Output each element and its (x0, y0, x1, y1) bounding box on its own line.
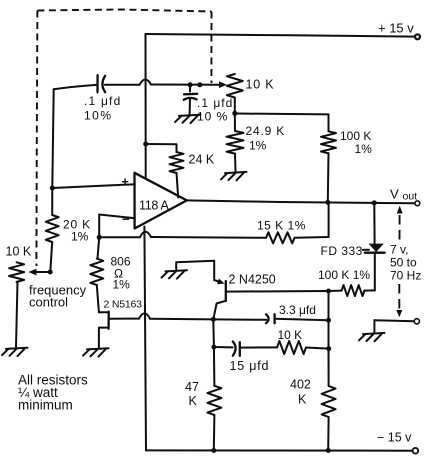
svg-text:K: K (189, 394, 198, 408)
svg-text:70 Hz: 70 Hz (390, 269, 421, 283)
node: wiper junction (48, 270, 53, 275)
ground (24.9K) (221, 172, 247, 180)
wire: collector node to 3.3ufd (213, 318, 266, 320)
wire: base node to 100K (329, 290, 342, 292)
node: 15ufd branch junction (211, 345, 216, 350)
resistor 100K 1% (divider) (321, 129, 372, 156)
svg-text:minimum: minimum (18, 398, 73, 413)
ganged-pot mechanical coupling dashed link (36, 10, 211, 267)
node: divider junction (232, 111, 237, 116)
svg-text:FD 333: FD 333 (321, 244, 363, 258)
svg-text:15 K 1%: 15 K 1% (257, 219, 306, 233)
resistor 47K (185, 380, 221, 415)
wire: V+ supply feed to op-amp (145, 34, 147, 178)
svg-text:3.3 μfd: 3.3 μfd (279, 303, 316, 317)
wire: 100K to diode corner (364, 289, 374, 291)
svg-text:118 A: 118 A (139, 199, 170, 213)
transistor Q1 2N4250 (176, 261, 328, 320)
wire: 24.9K to ground (234, 154, 237, 171)
capacitor C4 15 ufd (230, 342, 270, 374)
terminal: output ground return (374, 319, 419, 332)
node: collector / gate junction (211, 317, 216, 322)
svg-text:− 15 v: − 15 v (377, 431, 412, 445)
svg-text:2 N4250: 2 N4250 (229, 273, 276, 287)
wire: collector node down to 15ufd node (212, 319, 215, 347)
resistor 20K 1% (46, 215, 91, 244)
wire: trim pot bottom to divider node (234, 98, 236, 114)
wire: left node to C1 (54, 85, 98, 90)
capacitor C3 3.3 ufd (266, 303, 316, 323)
node: 10K wire / ladder junction (326, 346, 331, 351)
transistor Q2 2N5163 (97, 285, 142, 347)
resistor 24K (170, 152, 215, 173)
node: inverting input / 806 / 15K junction (97, 235, 102, 240)
node: 47K / rail (211, 448, 216, 453)
ground (C2) (175, 115, 201, 123)
node: wiper link tap (197, 82, 202, 87)
wire: 15K to Vout line (295, 203, 329, 238)
svg-text:1%: 1% (113, 278, 131, 292)
op-amp U1 118A (122, 173, 187, 229)
wire: 100K top from corner (328, 114, 330, 131)
wire: C1 to 10K trim pot wiper (hop over V+ feed) (105, 80, 221, 85)
ground (output terminal) (359, 333, 385, 341)
resistor 10K (series with 15ufd) (277, 328, 306, 354)
svg-text:47: 47 (185, 380, 199, 394)
wire: divider node to 24.9K (234, 113, 236, 131)
node: 402K / rail (326, 448, 331, 453)
svg-text:10 K: 10 K (6, 245, 32, 259)
wire: ladder vertical (base node down to rail) (328, 291, 330, 349)
svg-text:.1 μfd: .1 μfd (84, 94, 121, 108)
resistor 24.9K 1% (227, 124, 286, 154)
svg-text:24.9 K: 24.9 K (246, 124, 286, 138)
resistor 806 ohm 1% (90, 255, 131, 292)
resistor 402K (290, 349, 336, 451)
terminal: V out (390, 187, 420, 206)
svg-text:1%: 1% (249, 139, 267, 153)
node: 3.3ufd / ladder junction (326, 318, 331, 323)
svg-text:+ 15 v: + 15 v (378, 21, 414, 36)
node: base/ladder junction (326, 289, 331, 294)
node: FD333 tap on Vout (372, 200, 377, 205)
wire: inverting input (99, 215, 135, 219)
wire: 24K bottom to op-amp output apex (177, 173, 179, 198)
svg-text:10%: 10% (84, 109, 113, 123)
wire: 20K bottom to wiper node (50, 242, 52, 272)
node: shunt cap tap (188, 82, 193, 87)
ground (2N4250 emitter) (162, 270, 188, 278)
note: all resistors 1/4 watt minimum (18, 373, 88, 413)
node: + input / 20K junction (50, 186, 55, 191)
svg-text:2 N5163: 2 N5163 (104, 299, 143, 311)
wire: + node down to 20K (51, 188, 53, 215)
wire: 100K bottom to Vout line (327, 153, 330, 202)
wiper arrowhead into frequency pot (28, 269, 36, 276)
wire: 47K to rail (213, 415, 216, 451)
svg-text:100 K 1%: 100 K 1% (318, 268, 370, 282)
svg-text:.1 μfd: .1 μfd (197, 96, 233, 110)
-15 V supply rail (146, 431, 418, 454)
svg-text:10 %: 10 % (197, 110, 228, 124)
svg-text:−: − (122, 212, 130, 227)
svg-text:+: + (122, 175, 129, 189)
capacitor C1 .1 ufd 10% (series) (84, 75, 121, 122)
ground (2N5163 source) (83, 348, 109, 356)
wire: junction to 24K top (146, 144, 177, 152)
wire: left vertical (C1 to + input node) (52, 89, 53, 188)
diode FD333 (321, 203, 385, 291)
wire: 10K to ladder (306, 348, 329, 349)
svg-text:10 K: 10 K (278, 328, 303, 342)
wire: 15ufd to 10K (240, 346, 277, 348)
svg-text:V: V (390, 187, 399, 202)
svg-text:15 μfd: 15 μfd (230, 359, 270, 373)
potentiometer 10K frequency control (6, 245, 87, 310)
capacitor C2 .1 ufd 10% (shunt to ground) (184, 85, 233, 124)
wire: non-inverting input (52, 184, 135, 188)
wire: wiper of frequency-control pot (34, 271, 51, 273)
measurement annotation: 7v 50-70 Hz (390, 206, 421, 317)
svg-text:K: K (298, 393, 307, 407)
wire: node to 15ufd cap (214, 346, 233, 348)
svg-text:10 K: 10 K (246, 78, 275, 92)
+15 V supply rail (146, 21, 421, 40)
wire: V- supply feed (op-amp to -15 rail) (144, 227, 146, 451)
svg-text:out: out (403, 191, 418, 203)
svg-text:1%: 1% (355, 142, 373, 156)
wire: pot bottom to ground (16, 282, 18, 347)
svg-text:50 to: 50 to (390, 256, 417, 270)
node: 24K / V+ junction (143, 142, 148, 147)
wire: op-amp output to Vout terminal (187, 200, 415, 203)
svg-text:402: 402 (290, 378, 311, 392)
wire: 15ufd node down to 47K (213, 347, 216, 386)
wire: 2N5163 gate to collector node (hop over V- feed) (109, 313, 214, 319)
svg-text:24 K: 24 K (189, 153, 215, 167)
svg-text:7 v,: 7 v, (390, 243, 408, 257)
resistor 100K 1% (base) (318, 268, 370, 296)
wiper arrowhead into trim pot (219, 81, 227, 88)
svg-text:1%: 1% (71, 230, 89, 244)
wire: feedback node to 15K (hop over V- feed) (99, 232, 266, 238)
ground (frequency pot) (2, 348, 28, 356)
wire: inverting input drop to feedback node (98, 215, 100, 238)
resistor 15K 1% (257, 219, 306, 244)
wire: inverting node down to 806 (98, 237, 100, 258)
node: 100K/15K tap on Vout (325, 200, 330, 205)
svg-text:control: control (29, 295, 68, 310)
wire: 3.3ufd to ladder (275, 319, 329, 320)
potentiometer 10K trim (top) (227, 74, 275, 98)
wire: divider node to 100K top (235, 113, 329, 116)
